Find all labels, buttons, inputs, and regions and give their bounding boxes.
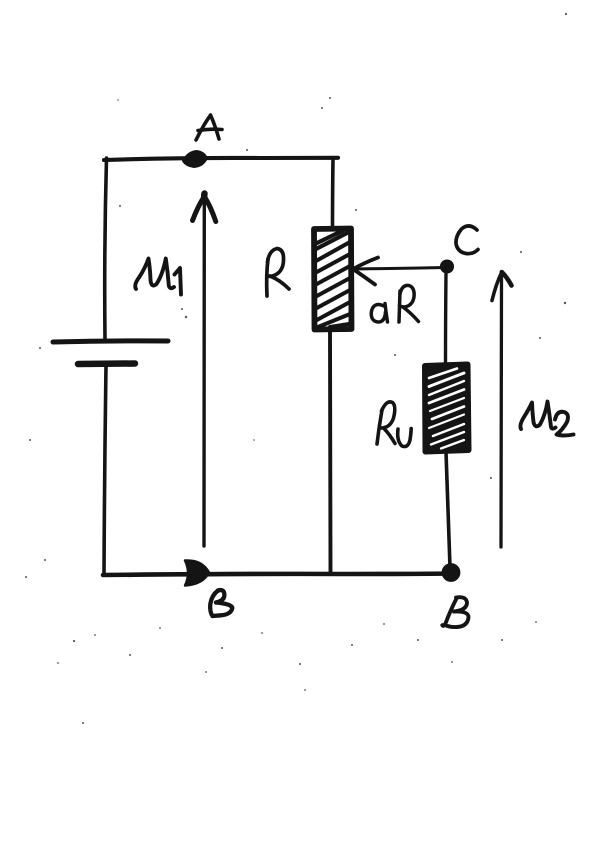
node A bbox=[183, 151, 207, 167]
label u1 bbox=[135, 259, 181, 295]
resistor R body bbox=[314, 229, 352, 330]
label B (left, below bottom wire) bbox=[210, 590, 232, 616]
label A bbox=[196, 115, 222, 140]
paper specks bbox=[25, 13, 567, 724]
resistor R hatching bbox=[315, 231, 350, 328]
label B (right) bbox=[442, 597, 468, 627]
label C bbox=[456, 226, 478, 254]
label Ru bbox=[377, 402, 411, 447]
wire top (A node rail) bbox=[104, 158, 338, 160]
voltage arrow u1 bbox=[202, 199, 206, 546]
current arrow on bottom wire bbox=[185, 560, 209, 585]
voltage arrow u2 bbox=[499, 276, 503, 547]
battery short plate bbox=[78, 360, 135, 367]
potentiometer wiper arrow (C to R) bbox=[355, 268, 446, 270]
battery long plate bbox=[53, 341, 168, 342]
wire bottom (B rail) bbox=[103, 574, 452, 576]
label u2 bbox=[520, 402, 573, 436]
wire top rail down to resistor R bbox=[331, 158, 335, 228]
resistor Ru body bbox=[425, 365, 469, 452]
node B (junction dot) bbox=[444, 566, 458, 580]
wire left (top rail to battery) bbox=[105, 158, 107, 340]
wire resistor R to bottom rail bbox=[328, 330, 332, 574]
wire node C down to Ru bbox=[444, 272, 448, 364]
label R bbox=[267, 249, 289, 297]
label aR bbox=[371, 285, 418, 322]
wire Ru to node B bbox=[446, 452, 450, 567]
node C bbox=[441, 260, 454, 273]
wire battery to bottom rail bbox=[104, 366, 106, 574]
resistor Ru hatching (white slits in dark body) bbox=[429, 369, 464, 449]
